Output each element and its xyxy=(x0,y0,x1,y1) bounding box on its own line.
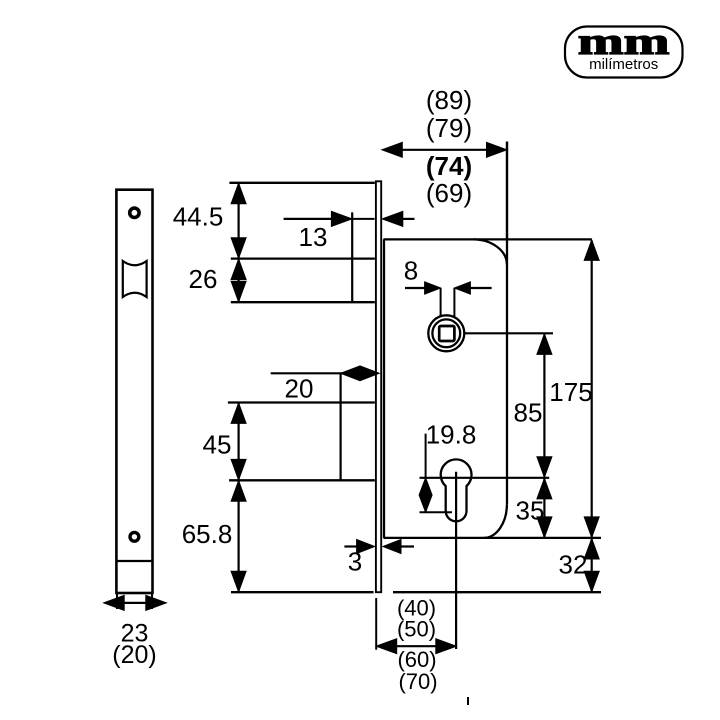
svg-text:(70): (70) xyxy=(398,669,437,694)
svg-text:3: 3 xyxy=(348,547,362,577)
svg-text:(79): (79) xyxy=(426,113,472,143)
svg-text:44.5: 44.5 xyxy=(173,202,224,232)
svg-text:8: 8 xyxy=(404,256,418,286)
svg-text:65.8: 65.8 xyxy=(182,519,233,549)
svg-text:(89): (89) xyxy=(426,85,472,115)
svg-text:85: 85 xyxy=(514,398,543,428)
svg-text:20: 20 xyxy=(285,374,314,404)
svg-text:175: 175 xyxy=(549,377,592,407)
svg-text:35: 35 xyxy=(516,496,545,526)
svg-text:(74): (74) xyxy=(426,151,472,181)
svg-text:(20): (20) xyxy=(112,641,156,669)
svg-text:(69): (69) xyxy=(426,178,472,208)
svg-text:(50): (50) xyxy=(397,617,436,642)
svg-text:26: 26 xyxy=(189,264,218,294)
svg-text:milímetros: milímetros xyxy=(589,56,658,73)
svg-text:45: 45 xyxy=(203,430,232,460)
svg-text:32: 32 xyxy=(559,550,588,580)
svg-text:13: 13 xyxy=(299,222,328,252)
svg-text:19.8: 19.8 xyxy=(426,420,477,450)
